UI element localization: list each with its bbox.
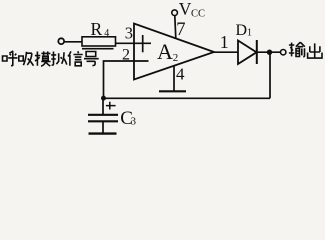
capacitor plus sign xyxy=(106,102,116,110)
svg-text:D: D xyxy=(236,22,248,39)
wire pin 1 output xyxy=(214,51,238,53)
svg-text:7: 7 xyxy=(176,20,185,40)
wire pin 7 xyxy=(175,16,176,39)
svg-text:3: 3 xyxy=(131,117,136,128)
capacitor C3 plate 1 xyxy=(88,114,118,116)
char 模 xyxy=(35,51,51,66)
char 信 xyxy=(68,51,83,66)
bottom feedback wire xyxy=(104,97,271,99)
svg-text:A: A xyxy=(157,39,173,64)
capacitor ground bar xyxy=(89,132,117,134)
diode D1 xyxy=(238,41,257,65)
wire output riser xyxy=(269,52,271,98)
junction dot output xyxy=(267,50,272,55)
input terminal xyxy=(58,38,64,44)
svg-text:1: 1 xyxy=(247,28,252,39)
svg-text:CC: CC xyxy=(191,8,205,19)
label D1 xyxy=(236,22,253,39)
capacitor C3 plate 2 xyxy=(88,120,118,122)
wire pin 4 xyxy=(173,66,175,92)
resistor R4 xyxy=(82,37,116,46)
svg-text:3: 3 xyxy=(125,24,133,43)
svg-text:1: 1 xyxy=(220,32,229,52)
svg-text:2: 2 xyxy=(173,52,179,64)
diode cathode bar xyxy=(256,40,258,64)
input label: 呼吸模拟信号 xyxy=(3,51,99,66)
label C3 xyxy=(120,108,136,129)
char 吸 xyxy=(19,52,34,66)
wire pin 2 feedback (minus arm) xyxy=(104,61,149,98)
capacitor bottom lead xyxy=(102,121,104,133)
label Vcc xyxy=(179,0,205,19)
wire diode to output xyxy=(257,51,281,53)
svg-text:R: R xyxy=(91,19,103,39)
svg-text:4: 4 xyxy=(176,65,185,84)
svg-text:V: V xyxy=(179,0,192,19)
output label: 输出 xyxy=(289,42,322,58)
label R4 xyxy=(91,19,110,39)
svg-text:4: 4 xyxy=(104,28,109,39)
resistor shadow line xyxy=(82,48,114,50)
label A2 xyxy=(157,39,178,64)
char 号 xyxy=(84,52,99,66)
wire input to R4 xyxy=(64,41,82,43)
char 出 xyxy=(308,43,322,58)
capacitor top lead xyxy=(102,98,104,114)
output terminal xyxy=(281,50,286,55)
char 输 xyxy=(289,42,305,57)
op-amp A2 xyxy=(134,24,214,80)
ground bar xyxy=(159,90,186,92)
Vcc terminal xyxy=(172,10,178,16)
op-amp plus marker xyxy=(142,35,144,52)
junction dot capacitor xyxy=(101,96,106,101)
char 呼 xyxy=(3,51,18,66)
char 拟 xyxy=(51,52,67,66)
wire R4 to pin 3 (plus arm) xyxy=(116,42,152,44)
